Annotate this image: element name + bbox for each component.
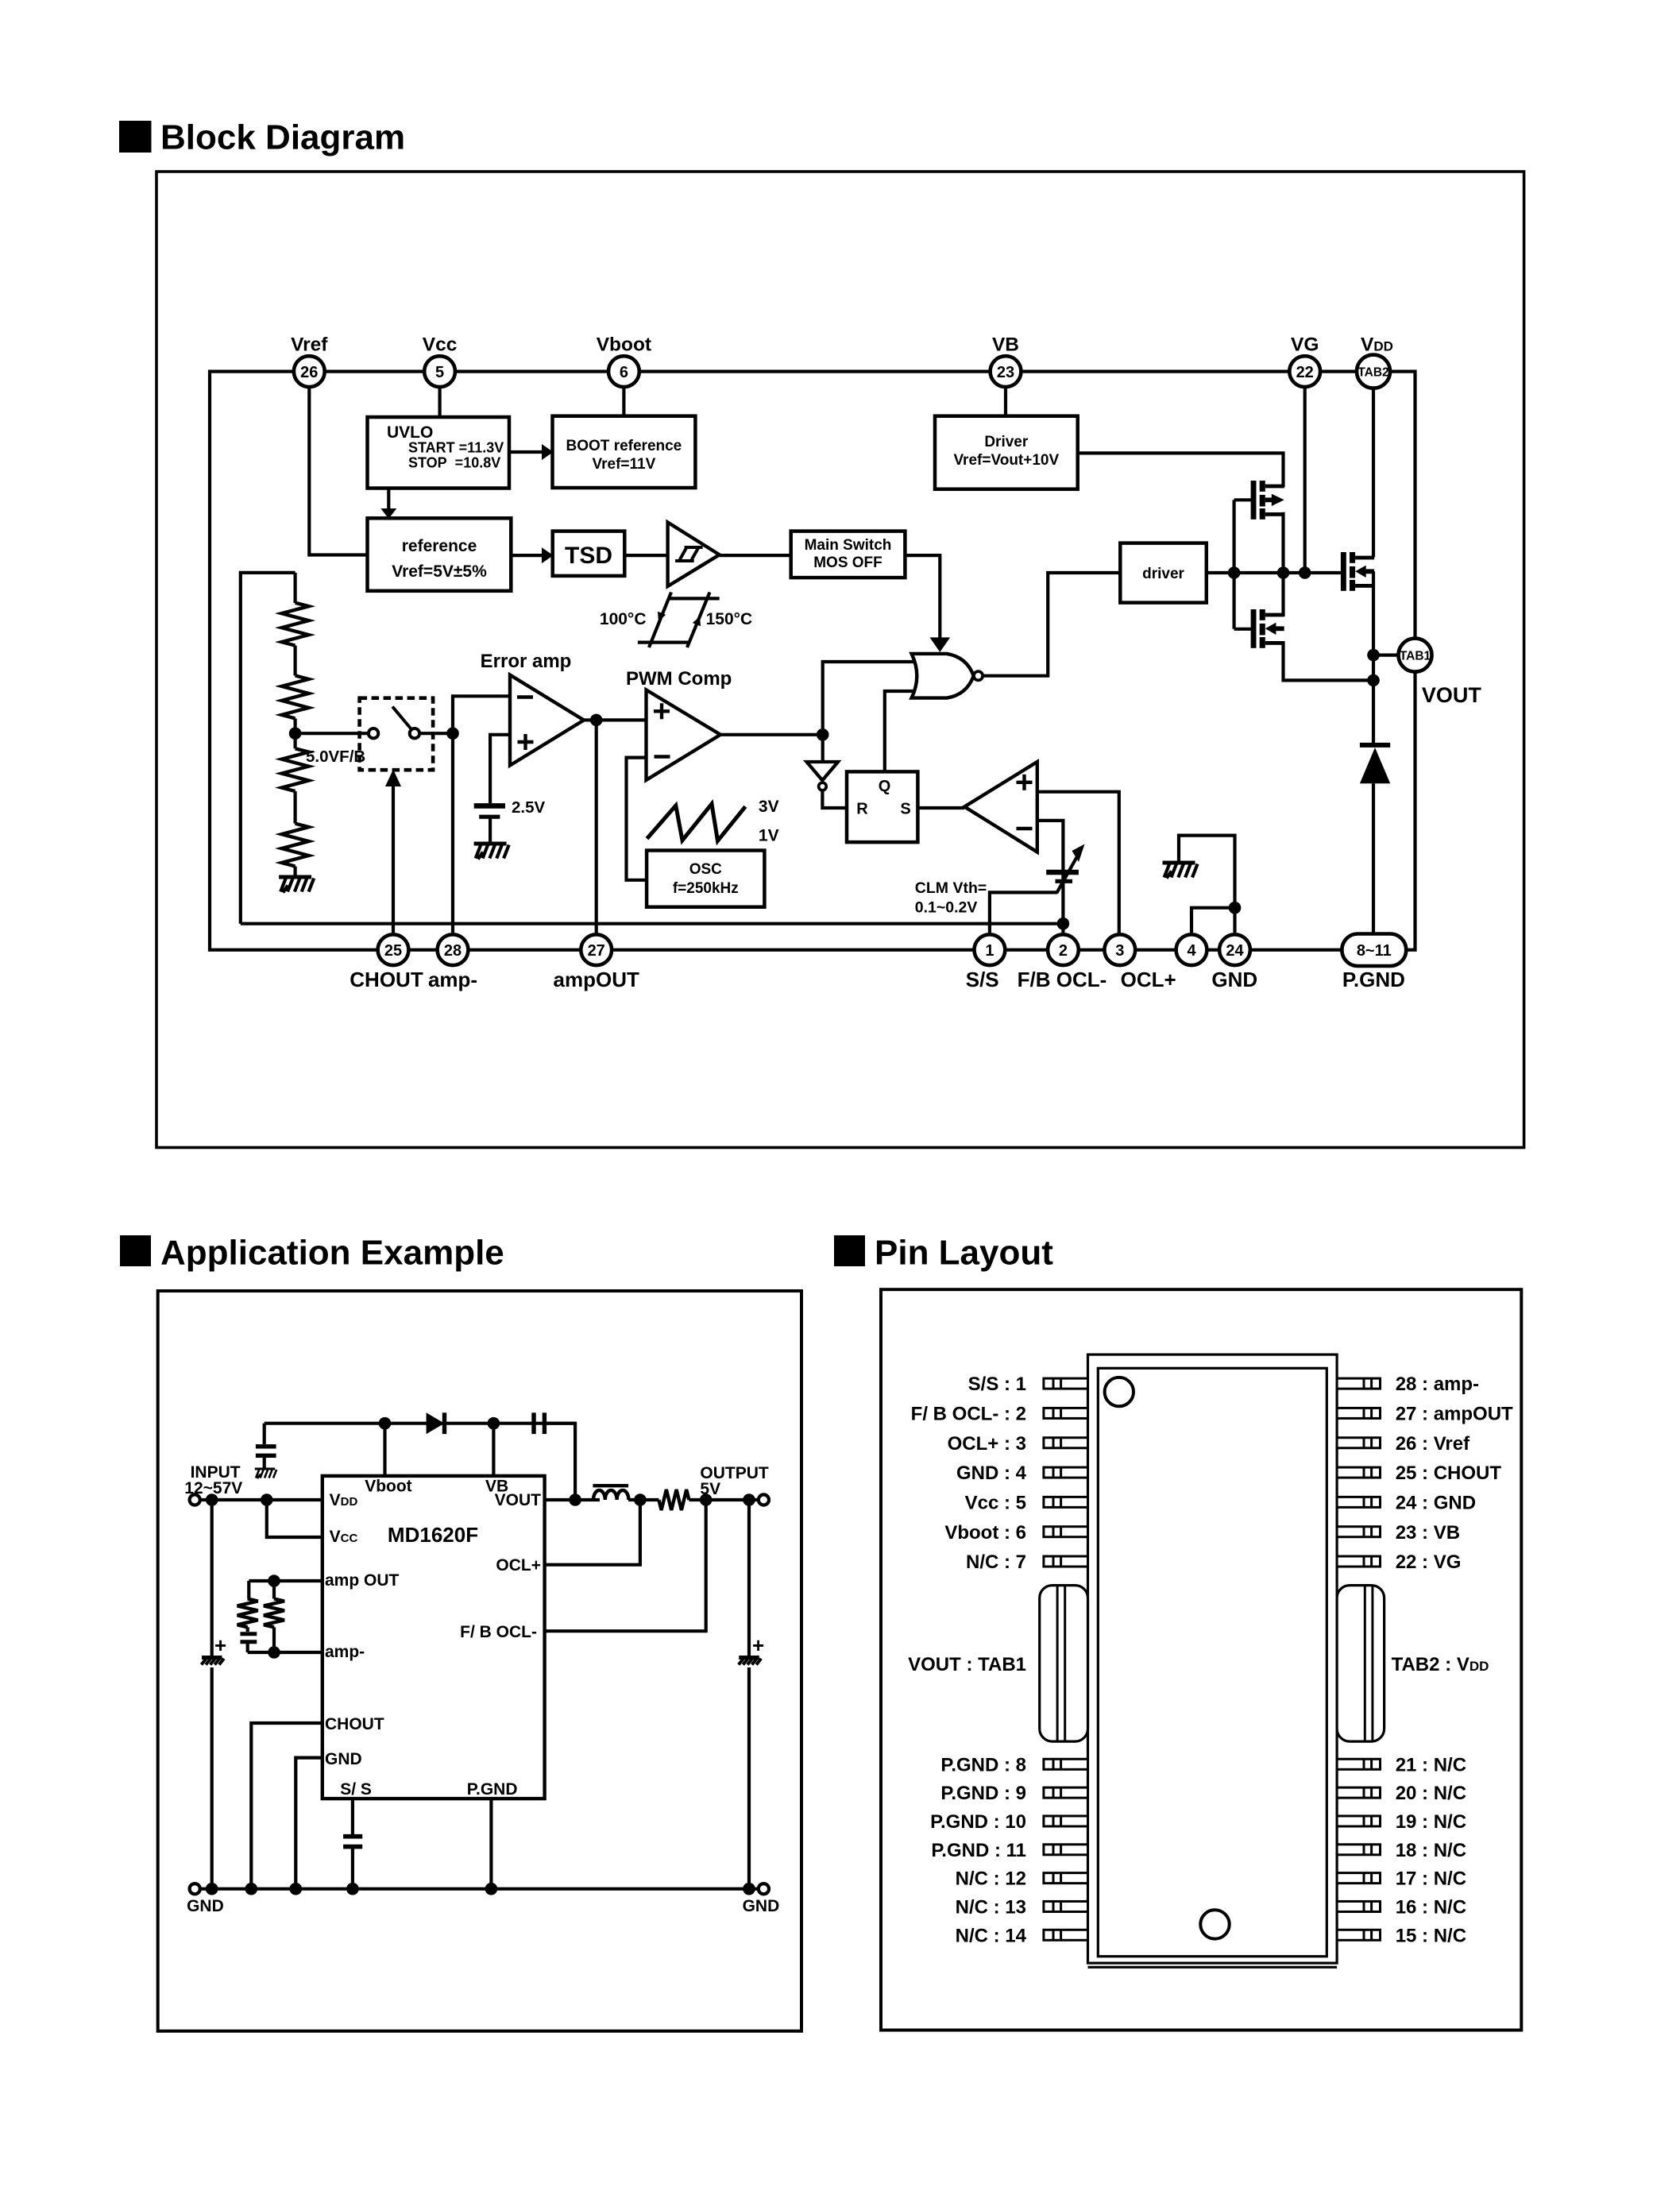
resistor R1 (comp)	[264, 1581, 284, 1652]
node VOUT ext junction	[569, 1493, 581, 1506]
wire GND pins to ground symbol	[1179, 836, 1235, 933]
svg-text:amp OUT: amp OUT	[325, 1571, 400, 1590]
ground (GND pins)	[1163, 863, 1198, 879]
svg-text:S/S : 1: S/S : 1	[968, 1374, 1026, 1395]
svg-text:Block Diagram: Block Diagram	[160, 118, 405, 157]
label VOUT	[1422, 683, 1482, 707]
wire P.GND lead	[489, 1799, 492, 1889]
label GND (left)	[187, 1897, 224, 1915]
wire OCL+ input	[1037, 792, 1119, 933]
op-amp Error amp U1	[510, 675, 584, 766]
pin 20 label	[1396, 1783, 1466, 1804]
thermal hysteresis glyph	[638, 593, 720, 648]
pin 8 stub	[1044, 1759, 1088, 1769]
svg-text:CHOUT: CHOUT	[325, 1715, 384, 1733]
ground (C2)	[255, 1469, 276, 1478]
block OSC	[647, 851, 764, 907]
svg-text:ampOUT: ampOUT	[554, 968, 639, 991]
label CLM Vth=	[915, 879, 987, 897]
pin 28 (amp-)	[438, 934, 469, 965]
label 5.0VF/B	[306, 748, 365, 766]
svg-text:Vref: Vref	[291, 334, 328, 356]
svg-text:amp-: amp-	[325, 1643, 365, 1661]
node ladder tap	[289, 727, 302, 740]
pin 26 (Vref)	[294, 356, 325, 387]
wire gates riser	[1232, 500, 1235, 629]
svg-text:Vref=11V: Vref=11V	[593, 456, 656, 473]
svg-text:GND: GND	[743, 1897, 780, 1915]
node totem output	[1277, 566, 1290, 579]
svg-text:OCL+: OCL+	[1121, 968, 1176, 991]
wire R3 to output terminal	[689, 1498, 758, 1501]
svg-text:MD1620F: MD1620F	[388, 1523, 478, 1547]
label VDD	[1361, 334, 1393, 356]
svg-text:TSD: TSD	[565, 543, 612, 569]
wire PWM out to NOR input	[823, 662, 917, 735]
svg-text:R: R	[856, 801, 868, 818]
svg-text:P.GND : 9: P.GND : 9	[940, 1783, 1026, 1804]
svg-text:23: 23	[997, 364, 1014, 381]
pin 25 stub	[1337, 1467, 1380, 1478]
NOR gate U6	[912, 654, 983, 698]
comparator OCL U7	[964, 762, 1037, 852]
wire Q3 source down	[1372, 571, 1375, 745]
svg-text:25: 25	[384, 942, 402, 960]
svg-text:22 : VG: 22 : VG	[1396, 1551, 1462, 1573]
node driver output	[1228, 566, 1241, 579]
pin 12 label	[956, 1868, 1026, 1890]
svg-text:5V: 5V	[700, 1480, 720, 1498]
node VB junction	[488, 1417, 500, 1430]
pin 2 label	[911, 1404, 1026, 1425]
pin 28 label	[1396, 1374, 1479, 1395]
terminal INPUT	[190, 1494, 200, 1505]
terminal GND left	[190, 1884, 200, 1894]
pin 23 label	[1396, 1522, 1460, 1544]
pin 2 (F/B OCL-)	[1048, 934, 1079, 965]
block TSD	[553, 531, 625, 576]
pin 11 label	[931, 1840, 1026, 1861]
block Main Switch MOS OFF	[791, 531, 906, 578]
pin 19 label	[1396, 1811, 1466, 1833]
svg-text:VG: VG	[1291, 334, 1319, 356]
svg-text:GND: GND	[325, 1750, 362, 1768]
svg-text:VB: VB	[992, 334, 1019, 356]
svg-text:+: +	[214, 1633, 226, 1657]
label GND (right)	[743, 1897, 780, 1915]
pin 25 (CHOUT)	[378, 934, 409, 965]
pin 6 stub	[1044, 1527, 1088, 1537]
soft-start switch (dashed box)	[360, 698, 433, 771]
wire VOUT to output	[545, 1498, 600, 1501]
label 150 C	[706, 610, 753, 628]
wire TAB2 down to main MOSFET drain	[1372, 388, 1375, 558]
pin 5 label	[965, 1492, 1026, 1513]
node PWM out	[817, 728, 829, 741]
label INPUT	[191, 1463, 241, 1482]
wire tap to switch	[295, 732, 369, 735]
pin 18 stub	[1337, 1845, 1380, 1855]
pin 22 label	[1396, 1551, 1462, 1573]
svg-text:P.GND : 10: P.GND : 10	[930, 1811, 1026, 1833]
svg-text:3: 3	[1115, 942, 1124, 960]
svg-text:4: 4	[1187, 942, 1196, 960]
label VB	[992, 334, 1019, 356]
section title: Application Example	[120, 1234, 504, 1273]
pin 26 label	[1396, 1433, 1470, 1455]
svg-text:8~11: 8~11	[1357, 942, 1392, 960]
pin 27 stub	[1337, 1408, 1380, 1418]
pin 5 (Vcc)	[424, 356, 455, 387]
resistor R3 (output)	[658, 1490, 689, 1510]
wire OCL- input	[1037, 821, 1064, 933]
wire Vcc branch	[267, 1500, 322, 1537]
wire R1-R2	[294, 646, 297, 676]
label 12~57V	[184, 1479, 242, 1497]
ground (ladder)	[279, 877, 314, 893]
label amp OUT (pin)	[325, 1571, 400, 1590]
svg-text:16 : N/C: 16 : N/C	[1396, 1897, 1466, 1918]
pin 1 stub	[1044, 1378, 1088, 1389]
pin 21 stub	[1337, 1759, 1380, 1769]
pin 4 stub	[1044, 1467, 1088, 1478]
bottom indicator circle	[1200, 1910, 1229, 1938]
svg-text:25 : CHOUT: 25 : CHOUT	[1396, 1463, 1502, 1484]
label OUTPUT	[700, 1464, 769, 1482]
svg-text:CLM Vth=: CLM Vth=	[915, 879, 987, 897]
TAB1 tab	[1040, 1586, 1088, 1742]
pins 8-11 (P.GND)	[1342, 934, 1406, 967]
wire amp- pin28 riser	[451, 733, 454, 933]
transistor Q2 (lower n-ch)	[1251, 609, 1284, 648]
svg-text:GND: GND	[1211, 968, 1257, 991]
svg-text:20 : N/C: 20 : N/C	[1396, 1783, 1466, 1804]
RS latch U5	[847, 771, 917, 842]
terminal OUTPUT	[759, 1494, 769, 1505]
svg-text:Vref=5V±5%: Vref=5V±5%	[392, 562, 487, 581]
svg-text:OSC: OSC	[689, 861, 722, 878]
wire Vref pin26 to reference box	[309, 388, 367, 555]
wire F/B OCL- sense	[545, 1500, 706, 1631]
svg-text:26 : Vref: 26 : Vref	[1396, 1433, 1470, 1455]
label VOUT : TAB1	[908, 1654, 1026, 1675]
pin 4 label	[956, 1463, 1027, 1484]
pin layout frame	[881, 1289, 1521, 2030]
ground bus	[200, 1888, 759, 1891]
block diagram frame	[156, 172, 1524, 1148]
wire switch to error amp node	[420, 732, 454, 735]
pin 8 label	[940, 1754, 1026, 1775]
label OCL+	[1121, 968, 1176, 991]
wire S input	[917, 806, 964, 809]
svg-text:15 : N/C: 15 : N/C	[1396, 1925, 1466, 1946]
wire S/S lead + capacitor C6	[343, 1799, 362, 1889]
svg-text:P.GND : 8: P.GND : 8	[940, 1754, 1026, 1775]
pin 3 (OCL+)	[1104, 934, 1135, 965]
pin 21 label	[1396, 1754, 1466, 1775]
svg-text:Vcc : 5: Vcc : 5	[965, 1492, 1026, 1513]
IC MD1620F body	[322, 1476, 545, 1799]
wire PWM plus input	[597, 718, 647, 721]
wire ampOUT pin27 riser	[595, 720, 598, 933]
wire error amp minus input	[453, 696, 510, 733]
svg-text:18 : N/C: 18 : N/C	[1396, 1840, 1466, 1861]
label OCL+ (pin)	[496, 1556, 541, 1575]
svg-text:MOS OFF: MOS OFF	[813, 554, 882, 571]
svg-text:1: 1	[985, 942, 994, 960]
svg-text:S/ S: S/ S	[340, 1780, 372, 1799]
label GND	[1211, 968, 1257, 991]
wire Vcc pin5 to UVLO box	[438, 388, 441, 417]
wire F/B line	[241, 922, 1064, 925]
node Q2 source junction	[1367, 674, 1380, 687]
package outline outer	[1088, 1354, 1338, 1963]
wire GND lead	[295, 1758, 322, 1889]
svg-text:19 : N/C: 19 : N/C	[1396, 1811, 1466, 1833]
svg-text:CHOUT: CHOUT	[350, 968, 423, 991]
pin 19 stub	[1337, 1816, 1380, 1826]
pin 14 label	[956, 1925, 1027, 1946]
svg-text:S/S: S/S	[966, 968, 999, 991]
svg-text:P.GND: P.GND	[1342, 968, 1405, 991]
wire Vboot pin	[383, 1424, 386, 1476]
resistor ladder R3	[282, 748, 309, 791]
node bus: CHOUT	[245, 1883, 258, 1895]
resistor ladder R2	[282, 675, 309, 718]
svg-text:PWM Comp: PWM Comp	[626, 668, 732, 690]
block reference	[368, 518, 512, 591]
svg-text:TAB1: TAB1	[1400, 650, 1431, 663]
label + (input cap)	[214, 1633, 226, 1657]
pin 20 stub	[1337, 1787, 1380, 1798]
pin 10 stub	[1044, 1816, 1088, 1826]
svg-text:Vref=Vout+10V: Vref=Vout+10V	[953, 452, 1059, 469]
svg-text:N/C : 14: N/C : 14	[956, 1925, 1027, 1946]
svg-text:P.GND : 11: P.GND : 11	[931, 1840, 1026, 1861]
wire R2 to tap	[294, 718, 297, 748]
arrow reference to TSD	[511, 547, 553, 563]
svg-text:Main Switch: Main Switch	[805, 537, 892, 554]
label CHOUT (pin)	[325, 1715, 384, 1733]
wire inverter to R input	[822, 790, 847, 808]
svg-text:Driver: Driver	[984, 434, 1029, 450]
svg-text:amp-: amp-	[428, 968, 477, 991]
node F/B tap	[700, 1493, 713, 1506]
svg-text:28: 28	[444, 942, 462, 960]
svg-text:Vboot : 6: Vboot : 6	[944, 1522, 1026, 1544]
pin1 indicator circle	[1105, 1378, 1134, 1406]
node comp junction	[268, 1575, 280, 1587]
label Vboot	[597, 334, 651, 356]
wire Vboot top rail	[265, 1422, 575, 1425]
node Vcc tap	[261, 1493, 273, 1506]
label Vboot (pin)	[365, 1478, 411, 1496]
pin 3 label	[948, 1433, 1026, 1455]
capacitor C2 (Vboot bypass)	[256, 1424, 276, 1469]
capacitor C4 (output electrolytic)	[739, 1500, 761, 1889]
node GND junction	[1229, 902, 1242, 914]
diode D1 (body diode)	[1360, 745, 1390, 935]
pin 27 label	[1396, 1404, 1513, 1425]
block Driver Vref=Vout+10V	[935, 416, 1078, 489]
svg-text:Vboot: Vboot	[597, 334, 651, 356]
pin 27 (ampOUT)	[581, 934, 612, 965]
svg-text:GND : 4: GND : 4	[956, 1463, 1027, 1484]
label VDD (pin)	[330, 1491, 358, 1509]
wire R3-R4	[294, 791, 297, 824]
label 2.5V	[512, 798, 545, 817]
pin 16 label	[1396, 1897, 1466, 1918]
pin 26 stub	[1337, 1438, 1380, 1448]
pin 3 stub	[1044, 1438, 1088, 1448]
label Vref	[291, 334, 328, 356]
variable source CLM	[1046, 844, 1084, 894]
svg-text:BOOT reference: BOOT reference	[566, 438, 682, 454]
label S/S	[966, 968, 999, 991]
pin TAB2 (VDD)	[1357, 355, 1390, 388]
arrow CHOUT pin25 to switch	[385, 770, 401, 933]
wire Vboot pin6 to BOOT reference box	[622, 388, 625, 417]
sawtooth waveform	[647, 804, 746, 841]
svg-text:26: 26	[300, 364, 318, 381]
pin 1 label	[968, 1374, 1026, 1395]
svg-text:2: 2	[1059, 942, 1068, 960]
section title: Pin Layout	[834, 1234, 1053, 1273]
wire error amp output	[584, 718, 597, 721]
wire Q to NOR input	[885, 691, 917, 771]
wire boot cap to VOUT node	[544, 1424, 575, 1500]
svg-text:24: 24	[1226, 942, 1244, 960]
svg-text:VOUT : TAB1: VOUT : TAB1	[908, 1654, 1026, 1675]
IC boundary outline	[210, 372, 1415, 950]
svg-text:5: 5	[435, 364, 444, 381]
pin 23 (VB)	[991, 356, 1022, 387]
node bus: S/S	[346, 1883, 359, 1895]
label Vcc (pin)	[330, 1528, 358, 1546]
svg-text:VOUT: VOUT	[1422, 683, 1482, 707]
pin 13 label	[956, 1897, 1026, 1918]
wire PWM minus input	[627, 758, 647, 880]
wire Q2 drain up	[1281, 573, 1284, 616]
package outline inner	[1098, 1368, 1327, 1956]
svg-text:2.5V: 2.5V	[512, 798, 545, 817]
wire OCL+ sense line	[545, 1500, 640, 1565]
buffer with hysteresis U2	[668, 523, 720, 587]
label 100 C	[600, 610, 647, 628]
TAB2 tab	[1337, 1586, 1385, 1742]
svg-text:STOP =10.8V: STOP =10.8V	[408, 455, 500, 471]
block BOOT reference	[553, 416, 696, 488]
comparator PWM Comp U3	[647, 690, 721, 780]
wire buffer to Main Switch block	[720, 554, 791, 557]
svg-text:17 : N/C: 17 : N/C	[1396, 1868, 1466, 1890]
pin 23 stub	[1337, 1527, 1380, 1537]
package seating line	[1088, 1966, 1338, 1969]
label Vcc	[423, 334, 458, 356]
wire lower gate lead	[1234, 628, 1252, 631]
wire Q2 source to VOUT	[1284, 641, 1374, 680]
svg-text:150°C: 150°C	[706, 610, 753, 628]
ground (2.5V ref)	[474, 844, 509, 860]
wire F/B riser (left)	[241, 573, 295, 924]
svg-text:22: 22	[1296, 364, 1314, 381]
label 1V	[759, 827, 779, 845]
pin 6 label	[944, 1522, 1026, 1544]
svg-text:Pin Layout: Pin Layout	[875, 1234, 1053, 1273]
svg-text:Vcc: Vcc	[423, 334, 458, 356]
capacitor C3 (boot cap)	[534, 1412, 544, 1434]
battery 2.5V reference	[474, 806, 505, 844]
pin 14 stub	[1044, 1930, 1088, 1940]
svg-text:0.1~0.2V: 0.1~0.2V	[915, 899, 978, 917]
pin 7 label	[966, 1551, 1026, 1573]
wire PWM out to inverter	[821, 735, 825, 762]
node ampOUT	[590, 714, 603, 727]
svg-text:N/C : 13: N/C : 13	[956, 1897, 1026, 1918]
label MD1620F	[388, 1523, 478, 1547]
svg-text:100°C: 100°C	[600, 610, 647, 628]
terminal GND right	[759, 1884, 769, 1894]
pin 5 stub	[1044, 1497, 1088, 1507]
wire input bulk cap riser	[210, 1500, 214, 1656]
svg-text:P.GND: P.GND	[467, 1780, 518, 1799]
svg-text:GND: GND	[187, 1897, 224, 1915]
pin 17 label	[1396, 1868, 1466, 1890]
pin 17 stub	[1337, 1873, 1380, 1884]
pin 15 label	[1396, 1925, 1466, 1946]
wire input to VDD pin	[200, 1498, 322, 1501]
wire ladder top stub	[294, 573, 297, 603]
wire TSD to buffer	[624, 554, 669, 557]
label PWM Comp	[626, 668, 732, 690]
wire VG pin22 down to gate node	[1303, 388, 1307, 573]
svg-text:driver: driver	[1142, 566, 1184, 582]
label 5V	[700, 1480, 720, 1498]
svg-text:27: 27	[588, 942, 605, 960]
svg-text:F/ B OCL-: F/ B OCL-	[460, 1623, 537, 1641]
block UVLO	[368, 417, 510, 489]
node F/B junction	[1057, 918, 1070, 930]
pin 16 stub	[1337, 1901, 1380, 1911]
diode D2 (bootstrap)	[427, 1412, 445, 1434]
wire TAB1 lead	[1373, 653, 1398, 656]
node bus: input cap	[206, 1883, 218, 1895]
node input bulk cap tap	[206, 1493, 218, 1506]
arrow UVLO to BOOT reference	[509, 444, 554, 460]
label VB (pin)	[485, 1478, 508, 1496]
node Vboot junction	[379, 1417, 392, 1430]
svg-text:N/C : 12: N/C : 12	[956, 1868, 1026, 1890]
svg-text:Q: Q	[879, 778, 891, 795]
pin TAB1 (VOUT)	[1399, 639, 1432, 672]
svg-text:5.0VF/B: 5.0VF/B	[306, 748, 365, 766]
svg-text:S: S	[900, 801, 910, 818]
label TAB2 : VDD	[1392, 1654, 1489, 1675]
pin 15 stub	[1337, 1930, 1380, 1940]
pin 24 (GND)	[1219, 934, 1250, 965]
pin 28 stub	[1337, 1378, 1380, 1389]
pin 9 stub	[1044, 1787, 1088, 1798]
svg-text:F/ B OCL- : 2: F/ B OCL- : 2	[911, 1404, 1026, 1425]
wire S/S to CLM	[990, 892, 1057, 933]
label ampOUT	[554, 968, 639, 991]
label Error amp	[481, 651, 572, 672]
pin 22 (VG)	[1289, 356, 1320, 387]
svg-text:3V: 3V	[759, 798, 779, 816]
pin 18 label	[1396, 1840, 1466, 1861]
label VOUT (pin)	[495, 1491, 542, 1509]
wire CHOUT lead	[251, 1723, 322, 1889]
